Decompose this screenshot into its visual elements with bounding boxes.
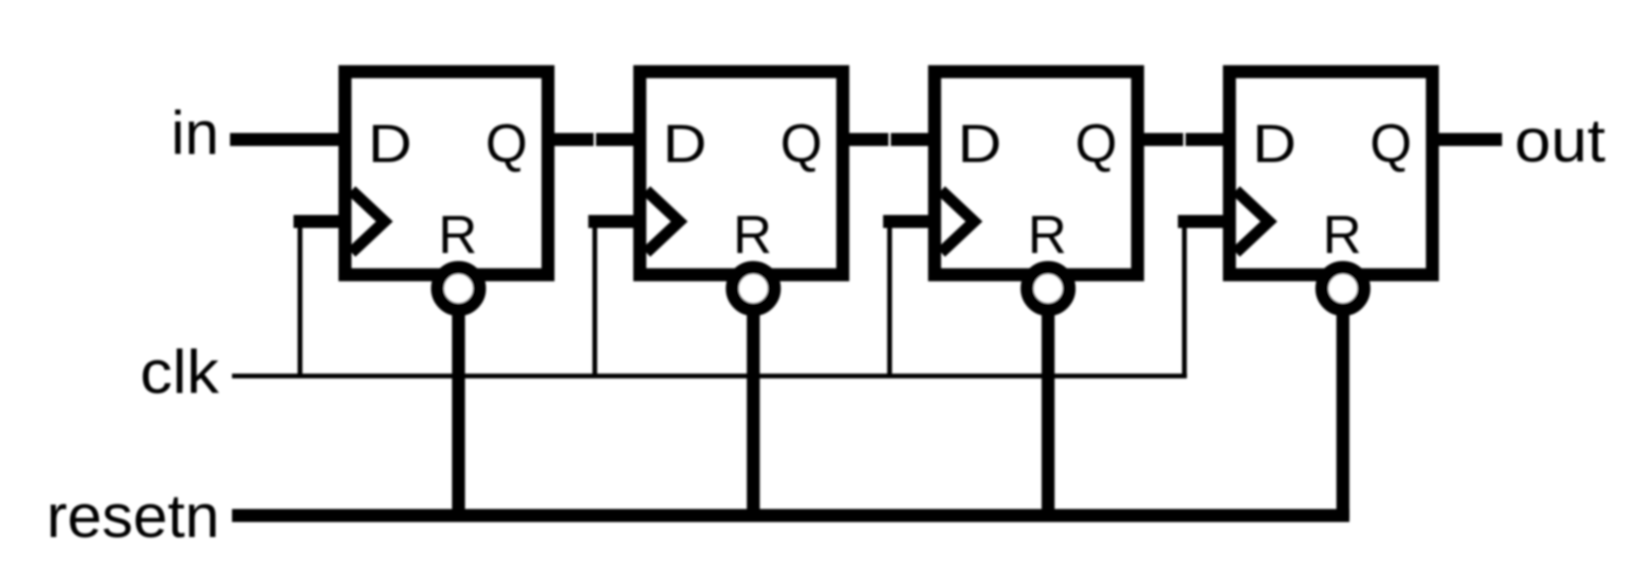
svg-text:R: R — [1323, 205, 1362, 265]
svg-text:D: D — [958, 114, 1002, 174]
wire clk stub into U1 — [294, 215, 349, 228]
wire U1.Q output — [545, 133, 594, 146]
wire clk stub into U4 — [1178, 215, 1233, 228]
wire U2.Q output — [840, 133, 889, 146]
svg-text:Q: Q — [486, 114, 528, 174]
U2 clock edge triangle — [646, 191, 679, 253]
wire resetn vertical to U4.R bubble — [1336, 289, 1349, 520]
wire clk branch vertical to U2 — [592, 220, 597, 377]
wire clk branch vertical to U1 — [298, 220, 303, 377]
flip-flop U2 body — [640, 72, 843, 275]
svg-text:out: out — [1515, 107, 1606, 175]
svg-text:Q: Q — [1370, 114, 1412, 174]
wire U4.Q to out — [1429, 133, 1502, 146]
wire resetn bus horizontal — [232, 509, 1349, 522]
wire resetn vertical to U3.R bubble — [1042, 289, 1055, 520]
svg-text:Q: Q — [780, 114, 822, 174]
svg-text:R: R — [733, 205, 772, 265]
svg-text:resetn: resetn — [47, 482, 220, 550]
flip-flop U4 body — [1229, 72, 1432, 275]
U1 active-low reset bubble — [438, 268, 480, 310]
U1 clock edge triangle — [352, 191, 385, 253]
wire resetn vertical to U2.R bubble — [747, 289, 760, 520]
svg-text:R: R — [1028, 205, 1067, 265]
flip-flop U1 body — [345, 72, 548, 275]
U3 clock edge triangle — [941, 191, 974, 253]
wire clk stub into U2 — [588, 215, 643, 228]
wire U2.D input — [596, 133, 643, 146]
svg-text:D: D — [663, 114, 707, 174]
U4 clock edge triangle — [1236, 191, 1269, 253]
wire resetn vertical to U1.R bubble — [452, 289, 465, 520]
svg-text:D: D — [368, 114, 412, 174]
U3 active-low reset bubble — [1027, 268, 1069, 310]
wire clk stub into U3 — [883, 215, 938, 228]
wire clk branch vertical to U3 — [887, 220, 892, 377]
wire U3.D input — [891, 133, 938, 146]
svg-text:in: in — [171, 99, 219, 167]
wire U3.Q output — [1135, 133, 1184, 146]
U4 active-low reset bubble — [1322, 268, 1364, 310]
wire clk bus horizontal — [232, 374, 1187, 379]
svg-text:Q: Q — [1075, 114, 1117, 174]
wire in to U1.D — [230, 133, 348, 146]
svg-text:D: D — [1252, 114, 1296, 174]
U2 active-low reset bubble — [732, 268, 774, 310]
svg-text:R: R — [438, 205, 477, 265]
wire clk branch vertical to U4 — [1182, 220, 1187, 377]
wire U4.D input — [1186, 133, 1233, 146]
flip-flop U3 body — [935, 72, 1138, 275]
svg-text:clk: clk — [140, 338, 220, 406]
